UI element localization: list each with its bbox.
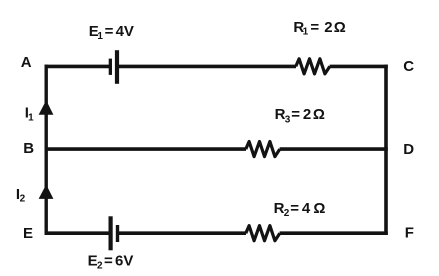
label I1	[25, 105, 34, 124]
label E1 = 4V	[89, 23, 134, 42]
svg-text:4V: 4V	[116, 23, 134, 40]
label R1 = 2 ohm	[293, 19, 345, 38]
wire middle resistor R3 to D	[280, 147, 388, 151]
wire bottom E to battery E2	[45, 231, 111, 235]
svg-text:=: =	[290, 200, 299, 217]
svg-text:6V: 6V	[115, 252, 133, 269]
svg-text:B: B	[23, 140, 34, 157]
svg-text:2: 2	[97, 261, 103, 272]
svg-text:1: 1	[28, 113, 34, 124]
wire top A to battery E1	[45, 65, 111, 69]
current arrow I1	[39, 100, 54, 115]
svg-text:1: 1	[303, 27, 309, 38]
label R3 = 2 ohm	[275, 106, 325, 126]
svg-text:D: D	[403, 141, 414, 158]
wire bottom battery E2 to resistor R2	[118, 231, 247, 235]
svg-text:E: E	[23, 225, 33, 242]
resistor R2	[246, 226, 280, 241]
battery E2	[111, 216, 118, 250]
label R2 = 4 ohm	[274, 200, 326, 219]
resistor R1	[296, 59, 330, 74]
wire right vertical C-D-F	[384, 65, 388, 235]
label E2 = 6V	[88, 252, 134, 271]
svg-text:A: A	[21, 54, 32, 71]
wire top resistor R1 to C	[330, 65, 388, 69]
label I2	[16, 186, 26, 205]
svg-text:Ω: Ω	[334, 19, 346, 36]
svg-text:4: 4	[302, 200, 311, 217]
svg-text:=: =	[310, 19, 319, 36]
wire bottom resistor R2 to F	[280, 231, 388, 235]
wire top battery E1 to resistor R1	[117, 65, 296, 69]
svg-text:=: =	[104, 252, 113, 269]
svg-text:2: 2	[324, 19, 332, 36]
svg-text:2: 2	[20, 194, 26, 205]
svg-text:Ω: Ω	[313, 106, 325, 123]
svg-text:Ω: Ω	[313, 200, 325, 217]
svg-text:2: 2	[284, 208, 290, 219]
svg-text:1: 1	[97, 31, 103, 42]
svg-text:=: =	[291, 106, 300, 123]
battery E1	[110, 50, 117, 84]
svg-text:F: F	[405, 225, 414, 242]
svg-text:2: 2	[303, 106, 311, 123]
wire left vertical A-B-E	[45, 65, 48, 235]
wire middle B to resistor R3	[45, 147, 247, 151]
current arrow I2	[39, 185, 54, 199]
svg-text:C: C	[403, 58, 414, 75]
svg-text:=: =	[105, 23, 114, 40]
svg-text:3: 3	[285, 114, 291, 125]
resistor R3	[246, 142, 280, 157]
